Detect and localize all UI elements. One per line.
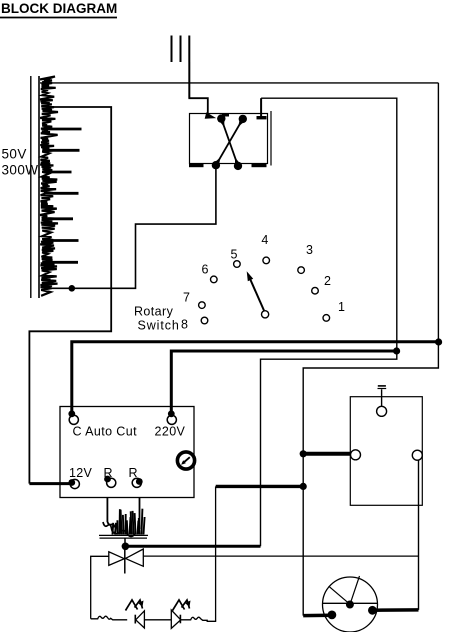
wire top line transformer to right rail: [40, 82, 438, 84]
motor M1 body: [323, 576, 378, 632]
motor left contact: [328, 611, 337, 620]
wire squiggle right: [181, 617, 217, 621]
svg-text:220V: 220V: [155, 425, 186, 439]
transformer taps: [44, 129, 82, 262]
title BLOCK DIAGRAM: [0, 1, 117, 18]
wire tap2 12V supply: [29, 107, 111, 484]
terminal C: [68, 410, 78, 424]
wire motor left lead (thick): [303, 613, 332, 617]
wire diode loop riser: [215, 486, 217, 621]
svg-text:50V: 50V: [2, 147, 27, 162]
terminal R1: [104, 476, 116, 488]
transformer T1 core: [31, 76, 39, 298]
junction winding end: [69, 285, 76, 292]
mains plug prongs: [172, 36, 190, 63]
svg-text:12V: 12V: [69, 466, 93, 480]
svg-text:C Auto Cut: C Auto Cut: [73, 425, 138, 439]
wire triac left: [91, 556, 109, 619]
wire right rail down: [303, 83, 438, 616]
svg-text:R: R: [129, 466, 138, 480]
junction 220V rail: [393, 347, 400, 354]
svg-text:6: 6: [202, 262, 209, 276]
svg-text:1: 1: [338, 300, 345, 314]
switch S1 pole dots: [212, 114, 247, 171]
svg-text:3: 3: [306, 243, 313, 257]
wire squiggle left: [91, 616, 128, 620]
wire plug to switch S1 input: [189, 62, 216, 119]
wire switch S1 to 220V rail: [260, 98, 262, 116]
switch S1 crossing contacts: [213, 117, 246, 167]
wire gate node to 220V drop (thick): [125, 545, 260, 548]
transformer label 50V 300W: [2, 147, 39, 178]
svg-text:Rotary: Rotary: [134, 305, 174, 319]
switch S1 body: [189, 111, 271, 167]
rotary switch labels: [181, 233, 345, 331]
svg-text:5: 5: [231, 247, 238, 261]
wire 12V feed thick: [29, 482, 72, 485]
auto cut box U1: [60, 407, 194, 498]
junction right rail lower: [300, 483, 307, 490]
auto cut labels: [69, 425, 186, 481]
wire right terminal down: [418, 460, 420, 610]
wire C terminal to right rail: [72, 342, 439, 414]
rotary switch center wiper: [247, 271, 269, 318]
wire 220V terminal: [171, 351, 396, 414]
triac Q1: [109, 546, 144, 573]
diode D2 arrows scribble: [173, 600, 191, 611]
relay box K1: [350, 397, 422, 506]
svg-text:BLOCK DIAGRAM: BLOCK DIAGRAM: [1, 1, 117, 16]
motor right contact: [368, 606, 377, 615]
wire rail to left terminal (thick): [303, 452, 351, 456]
terminal 220V: [167, 410, 176, 424]
wire triac right: [143, 555, 418, 557]
wire riser to right rail (thick): [216, 485, 304, 488]
junction gate node: [122, 543, 130, 551]
relay coil RL1 winding scribble: [103, 509, 145, 537]
wire bottom tap to rotary riser: [48, 165, 216, 288]
relay coil RL1 leads: [107, 498, 139, 530]
svg-text:7: 7: [183, 290, 190, 304]
knob / preset P1: [177, 452, 194, 469]
rotary switch SW2 contacts: [199, 257, 330, 324]
wire motor right lead (thick): [372, 608, 418, 612]
junction right rail: [435, 338, 442, 345]
wire D1 to D2: [144, 619, 171, 621]
svg-text:Switch: Switch: [138, 319, 180, 333]
right terminal: [412, 450, 422, 460]
diode D2: [171, 610, 180, 628]
svg-text:8: 8: [181, 318, 188, 332]
junction rail mid: [300, 450, 307, 457]
svg-text:R: R: [104, 466, 113, 480]
terminal R2: [132, 478, 143, 487]
terminal 12V: [68, 479, 79, 489]
rotary switch caption: [134, 305, 180, 333]
diode D1 arrows scribble: [126, 600, 144, 611]
diode D1: [135, 611, 144, 628]
svg-text:2: 2: [324, 274, 331, 288]
left terminal: [351, 450, 361, 460]
antenna terminal: [377, 386, 387, 416]
transformer T1 winding: [40, 77, 58, 296]
svg-text:4: 4: [261, 233, 268, 247]
svg-text:300W: 300W: [2, 163, 39, 178]
motor center dot: [346, 601, 354, 609]
relay core lines: [99, 535, 148, 544]
